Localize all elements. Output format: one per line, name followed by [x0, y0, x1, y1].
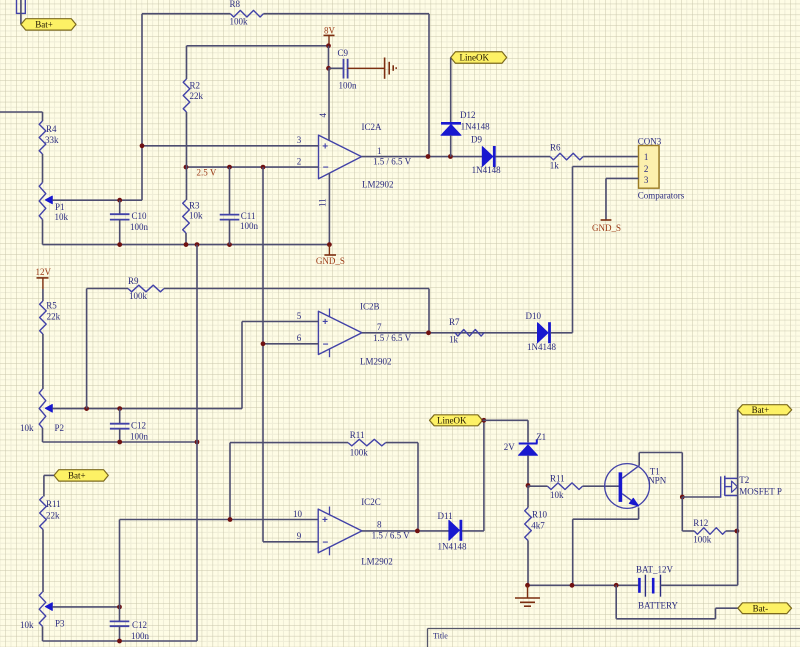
- resistor R4: [39, 121, 59, 154]
- wire (pin 6): [263, 343, 318, 345]
- wire: [229, 220, 231, 245]
- wire: [583, 485, 619, 487]
- wire: [42, 289, 44, 301]
- svg-text:1N4148: 1N4148: [461, 122, 490, 132]
- svg-text:R12: R12: [693, 518, 708, 528]
- wire: [229, 443, 231, 520]
- junction: [415, 529, 420, 534]
- wire (pin 3): [142, 145, 319, 147]
- svg-text:Comparators: Comparators: [638, 191, 685, 201]
- svg-text:1k: 1k: [449, 334, 459, 344]
- wire (P1 wiper): [52, 199, 142, 201]
- svg-text:Z1: Z1: [536, 432, 546, 442]
- wire (bottom rail): [43, 640, 198, 642]
- power port Bat+ (right): [738, 405, 792, 415]
- junction: [526, 483, 531, 488]
- svg-text:C9: C9: [338, 48, 349, 58]
- junction: [426, 154, 453, 159]
- pin 6 label: [297, 333, 302, 343]
- svg-text:+: +: [322, 515, 328, 526]
- svg-text:R8: R8: [230, 0, 241, 9]
- ground at battery rail: [515, 585, 540, 606]
- svg-text:33k: 33k: [45, 135, 59, 145]
- svg-text:IC2B: IC2B: [360, 301, 380, 311]
- pin 11 label: [318, 198, 328, 207]
- diode D11: [438, 511, 467, 552]
- diode D12: [441, 110, 490, 135]
- svg-text:4k7: 4k7: [531, 520, 545, 530]
- wire: [241, 322, 243, 409]
- pin 10 label: [293, 509, 303, 519]
- svg-text:C12: C12: [132, 620, 147, 630]
- wire: [495, 156, 550, 158]
- wire (pin 9): [263, 541, 318, 543]
- svg-text:MOSFET P: MOSFET P: [739, 486, 782, 496]
- power port GND_S (CON3): [592, 220, 621, 233]
- potentiometer P2: [20, 389, 64, 433]
- wire: [119, 220, 121, 245]
- wire: [527, 541, 529, 586]
- pin 9 label: [297, 531, 302, 541]
- svg-text:NPN: NPN: [648, 476, 667, 486]
- wire: [328, 46, 330, 69]
- wire: [87, 288, 128, 290]
- wire: [682, 497, 694, 531]
- wire: [141, 14, 143, 201]
- resistor R8: [230, 0, 264, 26]
- potentiometer P1: [39, 183, 68, 222]
- junction: [117, 639, 122, 644]
- svg-text:10k: 10k: [55, 212, 69, 222]
- svg-text:10k: 10k: [20, 620, 34, 630]
- resistor R5: [40, 301, 61, 335]
- svg-text:D10: D10: [526, 311, 542, 321]
- wire: [119, 520, 121, 607]
- svg-text:P2: P2: [55, 423, 65, 433]
- wire: [42, 220, 44, 245]
- svg-text:R9: R9: [128, 276, 139, 286]
- svg-text:Title: Title: [433, 631, 448, 640]
- wire: [417, 443, 419, 531]
- svg-text:R4: R4: [46, 124, 57, 134]
- wire (P3 wiper): [52, 606, 119, 608]
- svg-text:10: 10: [293, 509, 303, 519]
- junction: [84, 406, 122, 411]
- junction: [482, 418, 487, 423]
- op-amp IC2C: [318, 497, 393, 566]
- battery BAT_12V: [636, 565, 679, 611]
- svg-text:R7: R7: [449, 317, 460, 327]
- svg-text:R11: R11: [550, 473, 565, 483]
- wire: [263, 13, 429, 15]
- wire: [186, 46, 188, 79]
- svg-text:R10: R10: [532, 510, 548, 520]
- wire (pin 5): [242, 321, 318, 323]
- connector CON3: [638, 136, 685, 200]
- svg-text:C11: C11: [241, 211, 256, 221]
- wire: [528, 485, 548, 487]
- junction: [228, 517, 233, 522]
- wire: [164, 288, 429, 290]
- svg-text:R2: R2: [190, 80, 201, 90]
- pin 8 label: [377, 520, 382, 530]
- wire (T1 emitter): [573, 508, 639, 586]
- svg-text:Bat-: Bat-: [753, 603, 769, 613]
- capacitor C12 (second): [110, 620, 150, 641]
- svg-text:11: 11: [318, 198, 328, 207]
- svg-text:LM2902: LM2902: [361, 556, 393, 566]
- svg-text:GND_S: GND_S: [316, 256, 345, 266]
- wire (Bat- net): [616, 585, 738, 619]
- svg-text:100n: 100n: [339, 81, 358, 91]
- text 1.5/6.5V: [373, 333, 412, 343]
- capacitor C12: [110, 420, 149, 441]
- svg-text:9: 9: [297, 531, 302, 541]
- junction: [680, 495, 685, 500]
- svg-text:8: 8: [377, 520, 382, 530]
- wire: [230, 442, 348, 444]
- wire (Bat+ vertical): [737, 410, 739, 586]
- diode D9: [471, 134, 501, 175]
- op-amp IC2A: [319, 122, 394, 189]
- svg-text:7: 7: [377, 322, 382, 332]
- svg-text:LM2902: LM2902: [360, 356, 392, 366]
- svg-text:2: 2: [644, 164, 649, 174]
- wire: [186, 112, 188, 200]
- svg-text:+: +: [322, 141, 328, 152]
- wire (rail): [43, 441, 198, 443]
- svg-text:10k: 10k: [550, 490, 564, 500]
- title block: [428, 629, 800, 647]
- svg-text:100k: 100k: [129, 291, 148, 301]
- wire: [483, 420, 485, 531]
- svg-text:3: 3: [644, 175, 649, 185]
- junction: [117, 198, 122, 203]
- svg-text:LineOK: LineOK: [437, 416, 467, 426]
- svg-text:−: −: [323, 163, 329, 174]
- resistor R10: [525, 508, 548, 541]
- svg-text:3: 3: [297, 135, 302, 145]
- svg-text:4: 4: [318, 113, 328, 118]
- wire (pin 11): [328, 173, 330, 245]
- wire: [551, 332, 573, 334]
- wire: [483, 419, 529, 421]
- svg-text:CON3: CON3: [638, 136, 662, 146]
- svg-text:Bat+: Bat+: [35, 20, 53, 30]
- svg-text:1.5 / 6.5 V: 1.5 / 6.5 V: [373, 157, 412, 167]
- pin 3 label: [297, 135, 302, 145]
- wire (CON3 pin 2): [573, 167, 639, 333]
- svg-text:R5: R5: [46, 301, 57, 311]
- power port 8V: [324, 25, 336, 46]
- svg-text:10k: 10k: [189, 210, 203, 220]
- mosfet T2: [721, 475, 782, 498]
- wire: [119, 607, 121, 621]
- wire: [386, 442, 418, 444]
- svg-text:IC2A: IC2A: [362, 122, 383, 132]
- svg-text:5: 5: [297, 311, 302, 321]
- svg-text:T2: T2: [739, 475, 749, 485]
- junction: [735, 529, 740, 534]
- zener Z1: [504, 432, 547, 455]
- wire (pin 10 net): [120, 519, 319, 521]
- wire: [185, 233, 187, 245]
- wire: [119, 200, 121, 214]
- svg-text:GND_S: GND_S: [592, 223, 621, 233]
- wire (T1 collector): [639, 453, 682, 498]
- power port Bat-: [738, 603, 792, 614]
- potentiometer P3: [20, 592, 65, 630]
- resistor R7: [449, 317, 484, 344]
- wire: [726, 530, 738, 532]
- junction: [326, 43, 331, 48]
- wire: [119, 409, 121, 424]
- wire: [42, 626, 44, 641]
- resistor R2: [183, 79, 203, 112]
- capacitor C10: [110, 211, 149, 232]
- svg-text:C12: C12: [131, 420, 146, 430]
- svg-text:2: 2: [297, 157, 302, 167]
- junction: [326, 66, 331, 71]
- wire: [119, 626, 121, 641]
- wire: [42, 334, 44, 389]
- junctions on GND_S rail: [117, 242, 332, 247]
- wire: [462, 530, 484, 532]
- wire: [86, 289, 88, 409]
- svg-text:IC2C: IC2C: [361, 497, 381, 507]
- wire (pin 4 V+): [328, 68, 330, 140]
- wire: [42, 112, 44, 121]
- svg-text:BAT_12V: BAT_12V: [636, 565, 674, 575]
- transistor T1: [605, 464, 667, 509]
- wire: [329, 67, 344, 69]
- wire (CON3 pin 3): [606, 178, 639, 219]
- wire (output IC2B): [362, 332, 538, 334]
- svg-text:8V: 8V: [324, 25, 336, 35]
- wire (pin 2): [186, 166, 319, 168]
- diode D10: [526, 311, 557, 352]
- resistor R11 (100k): [348, 430, 386, 458]
- svg-text:22k: 22k: [46, 510, 60, 520]
- power port LineOK (lower): [430, 415, 483, 426]
- pin 1 label: [377, 146, 382, 156]
- wire: [583, 156, 638, 158]
- svg-text:1: 1: [644, 152, 649, 162]
- capacitor C9: [338, 48, 358, 90]
- wire: [119, 429, 121, 442]
- svg-text:LineOK: LineOK: [459, 53, 489, 63]
- svg-text:100k: 100k: [350, 448, 369, 458]
- svg-text:R11: R11: [350, 430, 365, 440]
- svg-text:22k: 22k: [190, 91, 204, 101]
- pin 4 label: [318, 113, 328, 118]
- svg-text:6: 6: [297, 333, 302, 343]
- svg-text:1.5 / 6.5 V: 1.5 / 6.5 V: [373, 333, 412, 343]
- fuse F1 (cut off at top edge): [17, 0, 26, 13]
- wire (T2 gate): [682, 496, 720, 498]
- svg-text:R11: R11: [46, 499, 61, 509]
- svg-text:22k: 22k: [47, 311, 61, 321]
- junctions: [525, 583, 619, 588]
- svg-text:100n: 100n: [240, 221, 259, 231]
- text 1.5/6.5V: [373, 157, 412, 167]
- resistor R11 (10k): [548, 473, 583, 500]
- wire: [20, 0, 22, 24]
- pin 5 label: [297, 311, 302, 321]
- svg-text:P3: P3: [55, 619, 65, 629]
- net label 2.5 V: [197, 167, 217, 177]
- net 2.5V junctions: [184, 165, 266, 170]
- wire (P2 wiper): [52, 408, 242, 410]
- svg-text:−: −: [322, 537, 328, 548]
- svg-text:1N4148: 1N4148: [472, 165, 501, 175]
- wire: [229, 167, 231, 214]
- pin 7 label: [377, 322, 382, 332]
- resistor R6: [550, 142, 583, 170]
- svg-text:Bat+: Bat+: [68, 471, 86, 481]
- junction: [117, 440, 199, 445]
- resistor R12: [693, 518, 726, 545]
- wire: [428, 14, 430, 157]
- wire: [42, 428, 44, 442]
- svg-text:2.5 V: 2.5 V: [197, 167, 217, 177]
- power port Bat+ (top left): [21, 19, 76, 30]
- wire: [527, 486, 529, 508]
- svg-text:D9: D9: [471, 134, 482, 144]
- svg-text:D11: D11: [438, 511, 453, 521]
- power port LineOK (top): [451, 52, 507, 64]
- svg-text:+: +: [322, 317, 328, 328]
- wire: [527, 420, 529, 442]
- svg-text:100n: 100n: [130, 222, 149, 232]
- wire: [187, 45, 329, 47]
- svg-text:12V: 12V: [36, 267, 52, 277]
- wire: [142, 13, 230, 15]
- capacitor C11: [220, 211, 259, 231]
- svg-text:P1: P1: [55, 202, 65, 212]
- svg-text:1N4148: 1N4148: [438, 542, 467, 552]
- wire (output IC2A): [362, 156, 483, 158]
- junction: [426, 330, 431, 335]
- wire: [428, 289, 430, 333]
- resistor R9: [128, 276, 164, 301]
- wire (output IC2C): [362, 530, 449, 532]
- wire (2.5V vertical): [262, 167, 264, 542]
- svg-text:100k: 100k: [693, 535, 712, 545]
- svg-text:BATTERY: BATTERY: [638, 601, 679, 611]
- svg-text:1: 1: [377, 146, 382, 156]
- svg-text:−: −: [323, 339, 329, 350]
- wire: [527, 455, 529, 485]
- power port 12V: [36, 267, 52, 289]
- wire: [450, 58, 452, 124]
- wire: [450, 135, 452, 156]
- svg-text:R6: R6: [550, 142, 561, 152]
- svg-text:1N4148: 1N4148: [527, 342, 556, 352]
- text 1.5/6.5V: [372, 530, 411, 540]
- wire: [0, 111, 43, 113]
- svg-text:C10: C10: [132, 211, 148, 221]
- resistor R11 (22k): [40, 497, 61, 530]
- junction: [261, 341, 266, 346]
- wire: [348, 67, 385, 69]
- svg-text:10k: 10k: [20, 423, 34, 433]
- svg-text:LM2902: LM2902: [362, 179, 394, 189]
- op-amp IC2B: [318, 301, 391, 366]
- wire: [196, 245, 198, 641]
- pin 2 label: [297, 157, 302, 167]
- svg-text:1k: 1k: [550, 160, 560, 170]
- svg-text:100k: 100k: [230, 16, 249, 26]
- svg-text:Bat+: Bat+: [752, 405, 770, 415]
- wire (battery rail): [528, 584, 640, 586]
- wire: [44, 475, 54, 496]
- svg-text:R3: R3: [189, 201, 200, 211]
- junction: [117, 605, 122, 610]
- wire (GND_S rail): [43, 244, 330, 246]
- svg-text:D12: D12: [460, 110, 476, 120]
- svg-text:100n: 100n: [130, 431, 149, 441]
- svg-text:2V: 2V: [504, 442, 516, 452]
- wire: [42, 154, 44, 183]
- svg-text:1.5 / 6.5 V: 1.5 / 6.5 V: [372, 530, 411, 540]
- resistor R3: [183, 200, 203, 233]
- power port GND_S: [316, 245, 345, 266]
- power port Bat+ (left middle): [54, 470, 108, 481]
- svg-text:100n: 100n: [131, 631, 150, 641]
- ground (earth) at C9: [385, 58, 397, 79]
- junction: [140, 143, 145, 148]
- wire: [661, 584, 738, 586]
- wire: [42, 530, 44, 593]
